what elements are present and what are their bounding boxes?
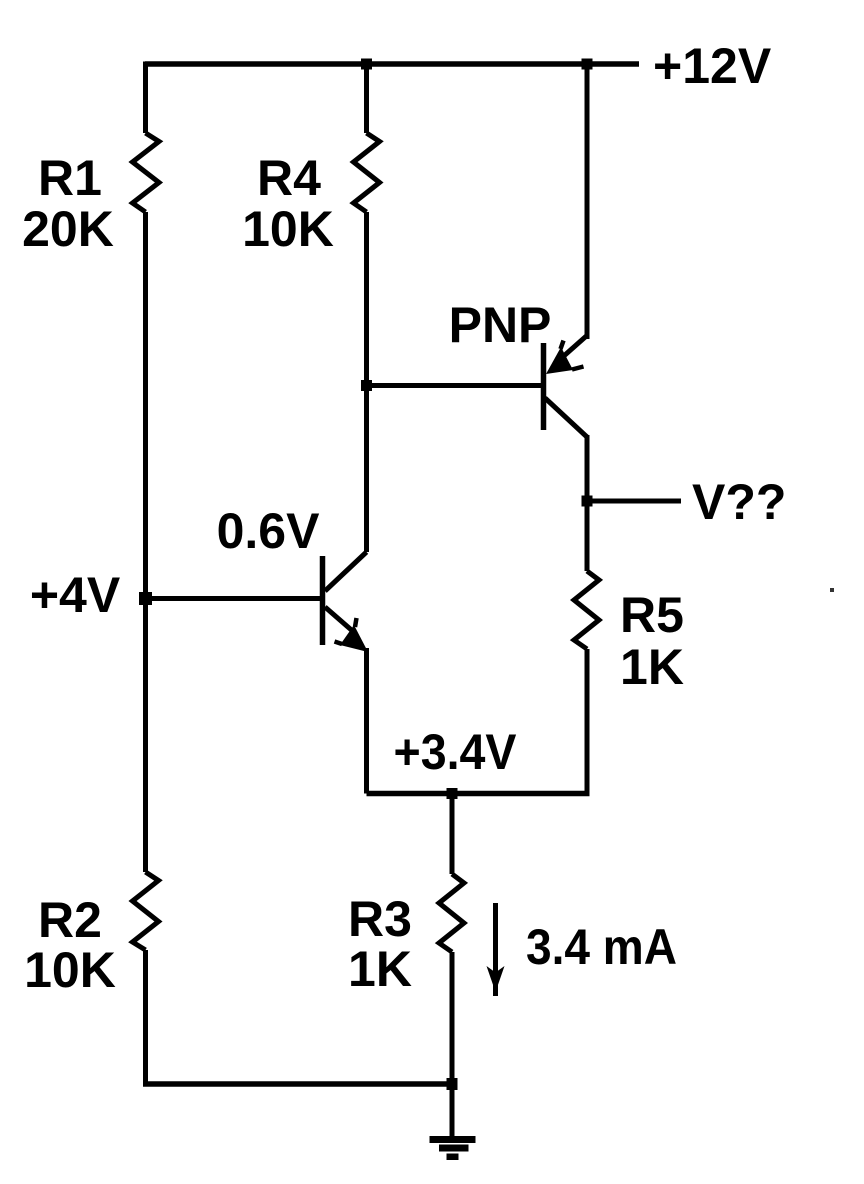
wire R4 branch top segment bbox=[364, 64, 369, 133]
wire R3 bottom to ground rail bbox=[450, 952, 455, 1084]
wire ground stem bbox=[450, 1084, 455, 1137]
svg-text:1K: 1K bbox=[620, 639, 684, 695]
label R3 bbox=[348, 891, 412, 947]
ground symbol bar 3 bbox=[447, 1154, 459, 1161]
label R4 bbox=[257, 150, 321, 206]
wire +3.4V rail bbox=[367, 791, 590, 797]
svg-text:10K: 10K bbox=[24, 942, 116, 998]
transistor Q1 NPN bar bbox=[320, 556, 326, 645]
wire base node down to NPN collector bbox=[364, 386, 369, 553]
stray speck dot bbox=[830, 588, 834, 592]
svg-text:+12V: +12V bbox=[653, 38, 772, 94]
svg-text:+4V: +4V bbox=[30, 567, 121, 623]
resistor R2 bbox=[133, 872, 159, 950]
node base junction dot (R4 / PNP base / NPN collector) bbox=[361, 380, 372, 391]
svg-text:V??: V?? bbox=[692, 474, 786, 530]
svg-text:+3.4V: +3.4V bbox=[394, 724, 518, 780]
node ground junction dot bbox=[447, 1078, 458, 1090]
value 10K (R4) bbox=[242, 201, 334, 257]
svg-text:10K: 10K bbox=[242, 201, 334, 257]
wire left vertical middle segment bbox=[143, 212, 148, 872]
label R1 bbox=[38, 150, 102, 206]
transistor Q2 PNP emitter arrowhead bbox=[546, 341, 584, 375]
value 20K bbox=[22, 201, 114, 257]
resistor R4 bbox=[354, 133, 380, 212]
current arrow 3.4 mA head bbox=[487, 966, 505, 992]
wire R5 bottom segment bbox=[585, 649, 590, 794]
transistor Q1 NPN emitter arrowhead bbox=[335, 618, 369, 652]
current arrow 3.4 mA shaft bbox=[493, 903, 498, 996]
svg-text:3.4 mA: 3.4 mA bbox=[526, 919, 677, 975]
node +3.4V junction dot bbox=[447, 788, 458, 799]
svg-text:R5: R5 bbox=[620, 587, 684, 643]
wire +3.4V node down to R3 bbox=[450, 794, 455, 875]
svg-text:PNP: PNP bbox=[449, 297, 552, 353]
wire bottom rail bbox=[143, 1081, 452, 1087]
wire top +12V rail bbox=[145, 61, 639, 67]
svg-text:1K: 1K bbox=[348, 941, 412, 997]
svg-text:R4: R4 bbox=[257, 150, 321, 206]
transistor Q1 NPN collector lead bbox=[325, 552, 367, 591]
label +4V bbox=[30, 567, 121, 623]
node +12V rail right junction dot bbox=[582, 59, 593, 70]
wire PNP collector down to V?? node bbox=[585, 435, 590, 571]
label 0.6V bbox=[217, 503, 321, 559]
svg-text:R3: R3 bbox=[348, 891, 412, 947]
resistor R5 bbox=[574, 571, 599, 649]
wire V?? stub bbox=[587, 499, 681, 504]
wire left vertical (R1/R2 branch) upper segment bbox=[143, 62, 148, 134]
wire PNP base bbox=[367, 383, 542, 388]
label R5 bbox=[620, 587, 684, 643]
wire left vertical lower segment bbox=[143, 950, 148, 1084]
node junction dot at top of R4 branch bbox=[361, 59, 372, 70]
transistor Q2 PNP bar bbox=[541, 343, 547, 430]
resistor R1 bbox=[133, 133, 160, 212]
label 3.4 mA bbox=[526, 919, 677, 975]
label +12V bbox=[653, 38, 772, 94]
value 10K (R2) bbox=[24, 942, 116, 998]
svg-text:R1: R1 bbox=[38, 150, 102, 206]
transistor Q2 PNP emitter lead bbox=[557, 335, 588, 362]
label R2 bbox=[38, 892, 102, 948]
value 1K (R5) bbox=[620, 639, 684, 695]
label PNP bbox=[449, 297, 552, 353]
node +4V junction dot bbox=[139, 592, 152, 605]
wire PNP emitter feed from +12V bbox=[585, 64, 590, 339]
ground symbol bar 2 bbox=[439, 1145, 469, 1152]
label V?? bbox=[692, 474, 786, 530]
svg-text:0.6V: 0.6V bbox=[217, 503, 321, 559]
resistor R3 bbox=[439, 874, 464, 952]
value 1K (R3) bbox=[348, 941, 412, 997]
node V?? junction dot bbox=[582, 496, 593, 507]
wire NPN emitter down segment bbox=[364, 648, 369, 794]
wire NPN base from +4V node bbox=[146, 596, 321, 601]
transistor Q1 NPN emitter lead bbox=[325, 607, 356, 634]
transistor Q2 PNP collector lead bbox=[545, 398, 587, 437]
svg-text:R2: R2 bbox=[38, 892, 102, 948]
wire R4 bottom to base node bbox=[364, 212, 369, 386]
ground symbol bar 1 bbox=[430, 1136, 476, 1143]
label +3.4V bbox=[394, 724, 518, 780]
svg-text:20K: 20K bbox=[22, 201, 114, 257]
